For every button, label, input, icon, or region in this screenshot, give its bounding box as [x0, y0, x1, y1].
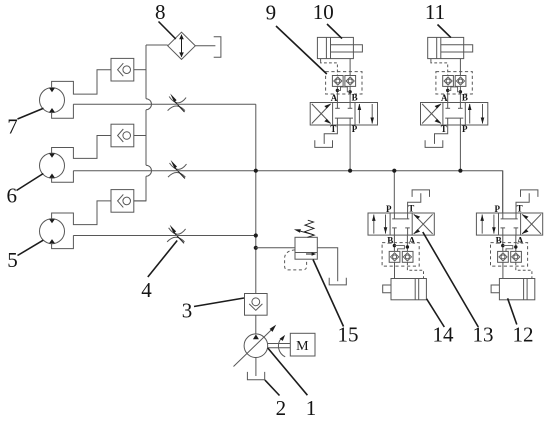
port label P (10): [352, 124, 358, 134]
pilot check block boundary (14): [382, 243, 419, 267]
wire P from bus (14): [393, 171, 395, 213]
wire block to cylinder left port (14): [394, 262, 396, 278]
svg-text:7: 7: [7, 115, 18, 139]
port label B (11): [462, 93, 468, 103]
valve center position (12): [501, 213, 519, 235]
svg-text:3: 3: [182, 298, 193, 322]
pilot check block boundary (12): [491, 243, 528, 267]
leader 9: [276, 26, 327, 74]
svg-text:B: B: [352, 93, 358, 103]
leader 1: [268, 348, 308, 395]
directional valve body (10): [310, 103, 377, 126]
label 9: [266, 1, 277, 25]
junction P-bus (11): [458, 169, 462, 173]
wire motor 7 top port to check valve: [52, 70, 111, 94]
wire B-line (14): [393, 235, 395, 251]
junction B (10): [348, 90, 351, 93]
wire line C motor5: [73, 235, 256, 237]
svg-text:A: A: [409, 236, 416, 246]
wire A-line (11): [447, 86, 449, 102]
throttle valve on motor 7 line: [168, 94, 187, 113]
cylinder 14: [383, 279, 427, 300]
wire B-line (10): [349, 86, 351, 102]
pump 1: [244, 334, 268, 358]
wire motor 7 bottom port to line: [52, 104, 74, 118]
pilot bridge (14): [394, 246, 404, 252]
pump shaft: [268, 344, 291, 348]
svg-text:B: B: [387, 236, 393, 246]
junction bus-lineB: [254, 169, 258, 173]
pilot dashed link cylinder 10: [321, 61, 338, 75]
pilot check block boundary (10): [326, 72, 362, 94]
pilot bridge (11): [448, 87, 461, 92]
valve parallel position (12): [480, 215, 495, 234]
pilot operated check valve in block (10): [345, 76, 356, 87]
wire drain collector vertical: [134, 45, 168, 201]
svg-text:12: 12: [513, 323, 534, 347]
wire cylinder 11 left port: [430, 59, 432, 62]
wire A-line (10): [336, 86, 338, 102]
directional valve body (14): [368, 213, 434, 235]
junction B (12): [501, 244, 504, 247]
hydraulic motor 6: [40, 153, 65, 178]
port label A (12): [517, 236, 524, 246]
label 1: [306, 396, 317, 420]
wire cylinder right port (12): [531, 276, 533, 278]
pilot dashed link cylinder 11: [431, 61, 448, 75]
svg-text:T: T: [441, 124, 447, 134]
svg-text:T: T: [330, 124, 336, 134]
svg-text:8: 8: [155, 0, 166, 24]
check valve 3: [245, 294, 268, 316]
wire pump suction: [255, 358, 257, 377]
leader 3: [194, 298, 244, 307]
relief valve pilot line: [285, 250, 307, 270]
pilot dashed link cylinder (12): [516, 262, 532, 276]
label 10: [313, 0, 334, 24]
pilot operated check valve in block (10): [332, 76, 343, 87]
valve crossed position (10): [312, 104, 331, 124]
directional valve body (12): [476, 213, 542, 235]
label 6: [6, 183, 17, 207]
valve center position (14): [392, 213, 410, 235]
leader 10: [327, 24, 342, 39]
wire T to tank (10): [324, 125, 337, 144]
wire B-line (11): [459, 86, 461, 102]
pilot operated check valve in block (11): [443, 76, 454, 87]
wire B-line (12): [502, 235, 504, 251]
svg-text:M: M: [296, 339, 309, 354]
port label T (12): [517, 204, 523, 214]
svg-text:P: P: [386, 204, 392, 214]
leader 13: [423, 232, 479, 327]
wire motor 6 bottom port to line: [52, 171, 74, 183]
port label P (14): [386, 204, 392, 214]
wire A-line (12): [515, 235, 517, 251]
port label A (11): [441, 93, 448, 103]
wire motor 6 top port to check valve: [52, 136, 111, 159]
svg-text:13: 13: [473, 323, 494, 347]
pilot operated check valve in block (14): [389, 251, 400, 262]
junction B (11): [459, 90, 462, 93]
wire motor 5 bottom port to line: [52, 236, 74, 249]
svg-text:A: A: [331, 93, 338, 103]
wire cylinder right port (14): [423, 276, 425, 278]
leader 12: [508, 298, 517, 324]
leader 2: [265, 380, 280, 396]
leader 8: [159, 22, 176, 40]
port label A (10): [331, 93, 338, 103]
port label B (12): [496, 236, 502, 246]
wire T to tank (14): [408, 193, 421, 213]
wire line A motor7: [73, 103, 256, 105]
pilot operated check valve in block (12): [498, 251, 509, 262]
svg-text:T: T: [517, 204, 523, 214]
leader 4: [148, 241, 177, 278]
label 4: [141, 278, 152, 302]
leader 6: [17, 174, 44, 191]
label 12: [513, 323, 534, 347]
svg-text:A: A: [517, 236, 524, 246]
relief valve spring: [305, 220, 315, 237]
svg-text:6: 6: [6, 183, 17, 207]
pilot operated check valve in block (14): [402, 251, 413, 262]
port label P (11): [462, 124, 468, 134]
wire motor 5 top port to check valve: [52, 201, 111, 225]
wire check valve above motor 5 outlet: [134, 200, 146, 202]
wire check valve above motor 7 outlet: [134, 69, 146, 71]
svg-text:P: P: [462, 124, 468, 134]
pilot operated check valve in block (11): [455, 76, 466, 87]
relief valve adjust arrow: [294, 229, 313, 235]
valve crossed position (12): [522, 214, 541, 234]
relief valve 15: [295, 237, 317, 259]
tank at valve (10): [315, 140, 333, 147]
pilot bridge (10): [337, 87, 350, 92]
svg-text:10: 10: [313, 0, 334, 24]
port label T (14): [408, 204, 414, 214]
junction A (14): [406, 245, 409, 248]
valve parallel position (14): [372, 215, 387, 234]
port label T (11): [441, 124, 447, 134]
label 8: [155, 0, 166, 24]
junction bus-relief: [254, 246, 258, 250]
svg-text:2: 2: [276, 396, 287, 420]
label 7: [7, 115, 18, 139]
valve crossed position (11): [422, 104, 441, 124]
port label B (14): [387, 236, 393, 246]
wire P to bus (11): [459, 125, 461, 171]
wire A-line (14): [406, 235, 408, 251]
tank for relief valve: [329, 278, 346, 285]
junction A (10): [336, 89, 339, 92]
wire T to tank (11): [435, 125, 448, 144]
check valve above motor 6: [111, 124, 134, 147]
port label B (10): [352, 93, 358, 103]
svg-text:B: B: [496, 236, 502, 246]
check valve above motor 5: [111, 190, 134, 213]
junction P-bus (10): [348, 169, 352, 173]
pilot operated check valve in block (12): [511, 251, 522, 262]
leader 14: [427, 299, 445, 327]
wire cylinder 10 left port: [320, 59, 322, 62]
svg-text:5: 5: [7, 248, 18, 272]
svg-text:P: P: [352, 124, 358, 134]
pilot dashed link cylinder (14): [407, 262, 423, 276]
junction A (11): [446, 89, 449, 92]
svg-text:11: 11: [425, 0, 445, 24]
valve center position (10): [335, 103, 353, 126]
valve center position (11): [445, 103, 463, 126]
check valve above motor 7: [111, 58, 134, 81]
leader 5: [18, 240, 44, 255]
port label A (14): [409, 236, 416, 246]
wire relief outlet: [317, 248, 337, 281]
port label P (12): [494, 204, 500, 214]
wire main vertical bus: [255, 104, 257, 334]
label 5: [7, 248, 18, 272]
svg-text:9: 9: [266, 1, 277, 25]
cylinder 10: [317, 37, 362, 58]
label 11: [425, 0, 445, 24]
valve parallel position (10): [358, 104, 374, 124]
pilot check block boundary (11): [436, 72, 472, 94]
junction bus-lineC: [254, 233, 258, 237]
label 14: [433, 323, 455, 347]
tank at valve (14): [412, 190, 429, 197]
wire block to cylinder left port (12): [502, 262, 504, 278]
svg-text:15: 15: [338, 323, 359, 347]
cylinder 11: [428, 37, 473, 58]
leader 15: [313, 260, 344, 327]
hydraulic motor 5: [40, 219, 65, 244]
electric motor M box: [290, 333, 315, 356]
label 15: [338, 323, 359, 347]
wire cooler outlet: [195, 45, 215, 47]
valve parallel position (11): [468, 104, 484, 124]
wire cylinder 10 right port: [349, 59, 351, 76]
wire P to bus (10): [349, 125, 351, 171]
wire check valve above motor 6 outlet: [134, 135, 146, 137]
label 2: [276, 396, 287, 420]
svg-text:14: 14: [433, 323, 455, 347]
junction P-bus (14): [392, 169, 396, 173]
svg-text:1: 1: [306, 396, 317, 420]
svg-text:T: T: [408, 204, 414, 214]
tank at valve (12): [521, 190, 538, 197]
junction B (14): [393, 244, 396, 247]
drain bracket: [214, 37, 221, 58]
svg-text:4: 4: [141, 278, 152, 302]
svg-text:B: B: [462, 93, 468, 103]
cylinder 12: [491, 279, 535, 300]
leader 11: [438, 25, 451, 38]
wire T to tank (12): [516, 193, 529, 213]
rotation arrow: [278, 335, 285, 357]
throttle valve 4 on motor 5 line: [167, 225, 186, 244]
junction A (12): [514, 245, 517, 248]
label 3: [182, 298, 193, 322]
cooler 8: [168, 32, 196, 59]
pilot bridge (12): [503, 246, 513, 252]
tank at valve (11): [425, 140, 443, 147]
throttle valve on motor 6 line: [168, 160, 187, 179]
leader 7: [18, 108, 44, 119]
wire bus to relief valve: [256, 247, 295, 249]
svg-text:P: P: [494, 204, 500, 214]
svg-text:A: A: [441, 93, 448, 103]
port label T (10): [330, 124, 336, 134]
directional valve body (11): [421, 103, 488, 126]
wire cylinder 11 right port: [459, 59, 461, 76]
wire P from bus (12): [502, 171, 504, 213]
valve crossed position (14): [413, 214, 432, 234]
tank below pump: [247, 372, 264, 380]
label 13: [473, 323, 494, 347]
wire line B main horizontal bus: [73, 171, 502, 213]
pump variable arrow: [234, 325, 277, 367]
hydraulic motor 7: [40, 88, 65, 113]
